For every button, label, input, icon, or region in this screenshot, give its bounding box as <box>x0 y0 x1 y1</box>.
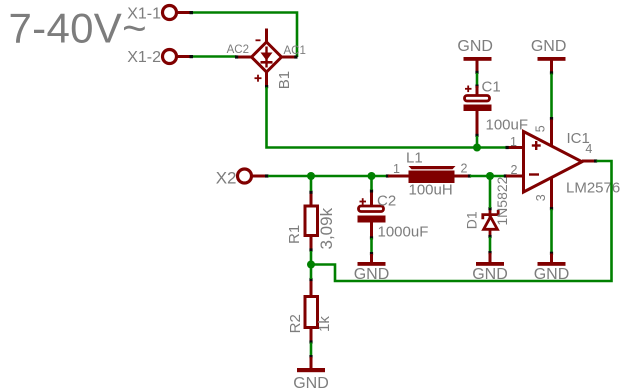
wire R2 bottom <box>310 343 313 357</box>
wire C2 top <box>370 176 373 190</box>
wire X1-1 to AC1 <box>193 13 297 58</box>
pin end IC1 pin 2 <box>504 174 507 177</box>
pin end C2 top <box>370 189 373 192</box>
svg-text:D1: D1 <box>464 211 480 229</box>
svg-text:GND: GND <box>531 38 567 55</box>
junction C1 rail A <box>473 144 481 152</box>
pin end X1-1 <box>190 11 194 14</box>
svg-text:B1: B1 <box>276 71 293 89</box>
junction D1 rail B <box>486 172 494 180</box>
diode D1 1N5822 <box>483 210 498 237</box>
pin end GND C2 <box>370 252 373 255</box>
svg-text:1k: 1k <box>316 316 333 332</box>
junction R1 R2 divider <box>307 261 315 269</box>
svg-text:R1: R1 <box>286 225 303 244</box>
svg-text:X1-1: X1-1 <box>127 6 161 23</box>
wire R1 top <box>310 176 313 191</box>
pin end IC1 pin 4 <box>594 159 597 162</box>
wire X1-2 to AC2 <box>193 55 237 58</box>
wire D1 top <box>489 176 492 208</box>
capacitor C1 100uF <box>464 86 492 136</box>
pin end GND D1 <box>488 251 491 254</box>
pin end AC1 <box>294 55 297 58</box>
pin end GND pin5 <box>550 71 553 74</box>
op-amp style regulator IC1 LM2576 <box>506 120 595 208</box>
pin end GND C1 <box>475 71 478 74</box>
pin end X2 <box>265 174 269 177</box>
wire D1 bottom <box>489 237 492 253</box>
wire pin 3 to GND <box>550 209 553 253</box>
svg-text:1N5822: 1N5822 <box>494 176 510 225</box>
pin end C1 top <box>475 85 478 88</box>
junction R1 rail B <box>307 172 315 180</box>
pin end R2 bottom <box>309 340 312 343</box>
svg-text:X2: X2 <box>216 168 237 187</box>
ground GND top C1 <box>457 38 493 72</box>
wire C2 bottom <box>370 238 373 254</box>
bridge rectifier B1 <box>238 29 296 87</box>
svg-text:5: 5 <box>533 125 547 132</box>
connector X2 <box>216 168 266 187</box>
inductor L1 100uH <box>388 166 469 183</box>
svg-text:X1-2: X1-2 <box>127 49 161 66</box>
svg-text:7-40V~: 7-40V~ <box>9 5 147 52</box>
pin end R1 top <box>309 191 312 194</box>
capacitor C2 1000uF <box>358 191 386 238</box>
ground GND D1 <box>472 253 508 283</box>
connector X1-1 <box>127 6 192 23</box>
ground GND C2 <box>354 254 390 283</box>
wire GND to C1 <box>476 73 479 86</box>
svg-text:GND: GND <box>457 38 493 55</box>
svg-text:AC2: AC2 <box>227 44 249 56</box>
wire feedback loop pin4 to divider <box>311 161 612 281</box>
wire B1 plus to rail A <box>267 87 509 148</box>
svg-text:4: 4 <box>585 142 592 156</box>
svg-text:1: 1 <box>393 162 400 176</box>
pin end IC1 pin 5 <box>550 117 553 120</box>
svg-text:AC1: AC1 <box>284 45 306 57</box>
pin end R1 bottom <box>309 248 312 251</box>
junction C2 rail B <box>368 172 376 180</box>
pin end IC1 pin 1 <box>506 146 509 149</box>
wire rail B left <box>268 175 387 178</box>
pin end L1 pin 2 <box>468 174 471 177</box>
pin end GND R2 <box>309 355 312 358</box>
svg-text:GND: GND <box>293 375 329 392</box>
svg-text:C1: C1 <box>482 79 501 96</box>
svg-text:3: 3 <box>534 194 548 201</box>
resistor R2 1k <box>305 280 318 342</box>
pin end C1 bottom <box>475 134 478 137</box>
pin end R2 top <box>309 278 312 281</box>
ground GND pin3 <box>534 254 570 284</box>
pin end GND pin3 <box>550 252 553 255</box>
svg-text:2: 2 <box>511 163 518 177</box>
pin end D1 bottom <box>488 235 491 238</box>
pin end IC1 pin 3 <box>550 207 553 210</box>
pin end B1 plus <box>265 85 268 88</box>
pin end C2 bottom <box>370 236 373 239</box>
resistor R1 3,09k <box>305 193 318 250</box>
svg-text:1000uF: 1000uF <box>378 224 429 241</box>
svg-text:100uH: 100uH <box>409 182 453 199</box>
svg-text:R2: R2 <box>287 314 304 333</box>
svg-text:3,09k: 3,09k <box>317 207 336 249</box>
wire rail B right <box>470 175 506 178</box>
ground GND R2 <box>293 357 329 392</box>
wire R2 top <box>310 265 313 280</box>
svg-text:2: 2 <box>461 162 468 176</box>
wire R1 bottom <box>310 251 313 265</box>
svg-text:1: 1 <box>510 135 517 149</box>
wire GND to pin 5 <box>550 74 553 119</box>
pin end D1 top <box>488 207 491 210</box>
svg-text:L1: L1 <box>406 150 423 167</box>
connector X1-2 <box>127 49 192 66</box>
pin end AC2 <box>235 55 238 58</box>
pin end L1 pin 1 <box>386 174 389 177</box>
svg-text:C2: C2 <box>377 193 396 210</box>
ground GND top pin5 <box>531 38 567 72</box>
wire C1 to rail A <box>476 136 479 148</box>
pin end X1-2 <box>190 55 194 58</box>
svg-text:100uF: 100uF <box>486 117 529 134</box>
